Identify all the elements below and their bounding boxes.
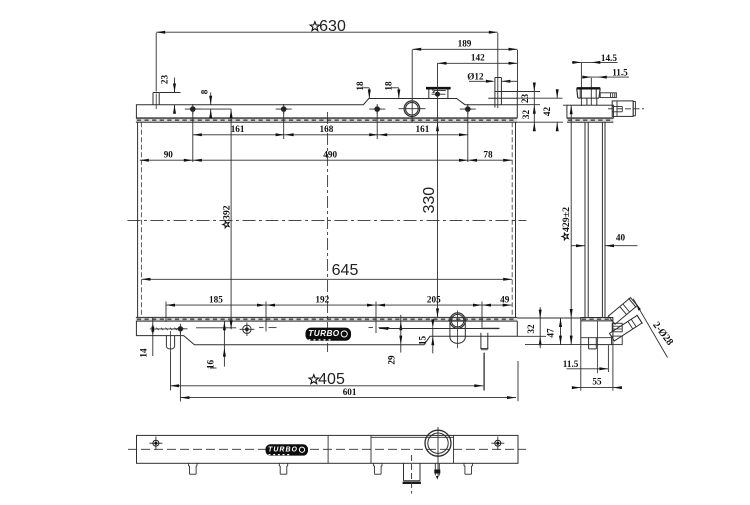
svg-text:405: 405 bbox=[318, 371, 345, 388]
svg-text:192: 192 bbox=[315, 294, 329, 304]
svg-text:42: 42 bbox=[542, 107, 552, 117]
svg-text:142: 142 bbox=[471, 52, 485, 62]
svg-text:601: 601 bbox=[343, 387, 357, 397]
svg-text:392: 392 bbox=[222, 205, 233, 220]
svg-text:TURBO: TURBO bbox=[268, 446, 297, 453]
svg-text:14.5: 14.5 bbox=[601, 53, 617, 63]
svg-text:32: 32 bbox=[521, 110, 531, 120]
svg-text:49: 49 bbox=[500, 294, 510, 304]
svg-text:205: 205 bbox=[427, 294, 441, 304]
svg-text:15: 15 bbox=[418, 336, 428, 346]
svg-text:18: 18 bbox=[355, 81, 365, 91]
svg-text:630: 630 bbox=[319, 18, 346, 35]
svg-text:23: 23 bbox=[160, 75, 170, 85]
svg-text:TURBO: TURBO bbox=[308, 329, 340, 338]
svg-text:11.5: 11.5 bbox=[563, 359, 579, 369]
svg-text:330: 330 bbox=[421, 187, 438, 214]
svg-text:8: 8 bbox=[199, 89, 209, 94]
svg-text:90: 90 bbox=[164, 150, 174, 160]
svg-text:32: 32 bbox=[526, 324, 536, 334]
svg-text:40: 40 bbox=[616, 233, 626, 243]
svg-text:29: 29 bbox=[387, 355, 397, 365]
svg-text:185: 185 bbox=[209, 294, 223, 304]
svg-text:161: 161 bbox=[231, 124, 245, 134]
svg-text:11.5: 11.5 bbox=[612, 68, 628, 78]
svg-text:78: 78 bbox=[483, 150, 493, 160]
svg-text:14: 14 bbox=[138, 348, 148, 358]
svg-text:161: 161 bbox=[416, 124, 430, 134]
svg-text:23: 23 bbox=[520, 94, 530, 104]
svg-text:18: 18 bbox=[384, 81, 394, 91]
svg-text:429±2: 429±2 bbox=[561, 207, 572, 232]
svg-text:47: 47 bbox=[546, 328, 556, 338]
svg-text:55: 55 bbox=[592, 376, 602, 386]
svg-text:490: 490 bbox=[323, 150, 337, 160]
svg-text:Ø12: Ø12 bbox=[467, 71, 484, 81]
svg-text:189: 189 bbox=[458, 39, 472, 49]
svg-text:168: 168 bbox=[320, 124, 334, 134]
svg-text:645: 645 bbox=[332, 262, 359, 279]
